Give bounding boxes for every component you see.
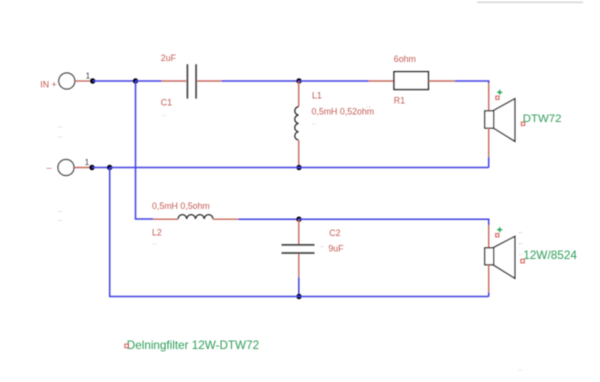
wire lead L2 right [213,218,239,220]
node junction top T [133,78,138,83]
wire bottom rail [110,168,489,297]
svg-text:12W/8524: 12W/8524 [523,248,577,262]
wire [488,157,490,167]
wire to speaker LS2 [299,219,489,225]
svg-text:..: .. [518,226,522,235]
wire [239,218,300,220]
inductor L1 leads [298,81,300,107]
pin square LS1 label side [521,122,524,125]
wire (lead of IN+) [75,80,91,82]
wire lead L1 bottom [298,140,300,167]
svg-text:0,5mH 0,5ohm: 0,5mH 0,5ohm [152,201,210,211]
svg-text:..: .. [58,214,62,223]
svg-text:Delningfilter 12W-DTW72: Delningfilter 12W-DTW72 [127,339,259,352]
wire lead speaker LS1 bottom [488,128,490,158]
svg-text:..: .. [162,109,166,118]
node junction C2 bottom [296,294,301,299]
speaker LS1 body [485,111,494,128]
svg-text:0,5mH 0,52ohm: 0,5mH 0,52ohm [312,106,375,116]
terminal IN+ [59,73,75,89]
inductor L1 [295,107,299,140]
svg-text:..: .. [518,248,522,257]
svg-text:..: .. [518,237,522,246]
capacitor C2 [282,244,315,246]
svg-text:1: 1 [85,158,90,167]
svg-text:..: .. [367,101,371,110]
svg-text:..: .. [312,118,316,127]
node junction L1 bottom [296,165,301,170]
svg-text:C2: C2 [329,228,340,238]
wire lead C1 left [162,80,187,82]
svg-text:2uF: 2uF [161,53,177,63]
node junction IN- T [107,165,112,170]
capacitor C1 [186,64,188,98]
svg-text:L1: L1 [312,90,322,100]
svg-text:1: 1 [86,72,91,81]
plus mark LS1 [497,90,502,95]
wire [222,80,300,82]
svg-text:6ohm: 6ohm [394,54,416,64]
wire lead C2 bottom [298,254,300,278]
wire (lead of IN-) [74,167,90,169]
svg-text:..: .. [58,205,62,214]
wire lead C2 top [298,219,300,244]
wire [92,167,110,169]
svg-text:IN +: IN + [40,80,56,90]
node junction at IN- pin [89,165,94,170]
wire lead speaker LS2 bottom [488,265,490,293]
wire lead R1 left [369,80,395,82]
resistor R1 [394,72,428,90]
wire [488,293,490,297]
svg-text:–: – [47,163,52,173]
svg-text:R1: R1 [394,96,405,106]
wire [455,81,489,83]
pin square LS1 + [496,96,499,99]
svg-text:9uF: 9uF [328,244,344,254]
speaker LS2 body [485,248,494,265]
wire [93,80,136,82]
speaker LS2 horn [494,236,515,278]
svg-text:..: .. [58,121,62,130]
wire [298,278,300,297]
pin square title [125,344,128,347]
wire mid rail [110,167,489,169]
wire to C1 [136,80,162,82]
node junction at IN+ pin [90,78,95,83]
wire lead L2 left [153,218,178,220]
plus mark LS2 [497,227,502,232]
svg-text:C1: C1 [161,97,172,107]
wire lead speaker LS2 top [488,225,490,248]
pin square LS2 label side [521,259,524,262]
wire to R1 [299,80,369,82]
top toolbar edge line [477,1,583,3]
terminal IN- [58,160,74,176]
inductor L2 [178,215,213,219]
svg-text:..: .. [320,240,324,249]
svg-text:..: .. [518,363,522,372]
wire lead speaker LS1 top [488,83,490,111]
node junction C1/L1/R1 [296,78,301,83]
node junction L2/C2 [296,217,301,222]
wire vertical feed to L2 [136,81,154,219]
svg-text:L2: L2 [152,228,162,238]
wire lead R1 right [428,80,455,82]
wire lead C1 right [197,80,221,82]
speaker LS1 horn [494,99,515,142]
svg-text:..: .. [152,238,156,247]
pin square LS2 + [496,234,499,237]
svg-text:DTW72: DTW72 [523,113,562,125]
svg-text:..: .. [58,130,62,139]
